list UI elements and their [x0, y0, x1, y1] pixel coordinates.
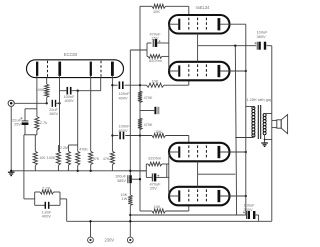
wire V4 anode out [220, 195, 246, 197]
ground rail [11, 170, 146, 172]
wire fb to bottom rail [66, 199, 68, 221]
ground symbol main [8, 171, 15, 173]
resistor 2.7k cathode U1a [36, 109, 38, 117]
wire anode to C1 [60, 90, 68, 92]
wire rail to lower box [130, 170, 146, 172]
svg-text:400V: 400V [119, 95, 128, 100]
wire V3 anode out [220, 151, 246, 153]
capacitor 100uF/385V [127, 175, 129, 183]
U1a grid (dashed) [47, 61, 49, 77]
wire U1b cathode down [90, 76, 92, 151]
node anode tee lower [111, 134, 113, 136]
resistor 82Ohm upper [148, 55, 162, 59]
capacitor 100nF/400V C2a [118, 81, 120, 89]
wire anode to C2a [112, 84, 117, 86]
wire speaker return [272, 127, 277, 129]
wire plate bus to primary [246, 106, 254, 108]
wire V4 cathode out [169, 195, 179, 197]
wire 47K to rail [90, 165, 92, 171]
capacitor 22uF/25V cathode [24, 109, 26, 121]
U1a anode bar [36, 62, 38, 76]
wire V3 cathode out [169, 151, 179, 153]
resistor 10K/1W dropper [128, 195, 132, 205]
svg-text:47K: 47K [103, 157, 110, 161]
wire cathode box bottom [24, 134, 37, 136]
U1a cathode bar [58, 62, 61, 76]
wire terminal L riser [90, 221, 92, 237]
wire cap to anode line [56, 102, 60, 104]
resistor 47K cathode U1b [89, 151, 93, 164]
svg-text:400V: 400V [42, 214, 51, 219]
wire secondary top to speaker [265, 113, 272, 115]
screen link lower [198, 173, 236, 175]
wire fb box left [24, 198, 35, 200]
wire U1b grid riser [100, 78, 102, 91]
screen bus upper [198, 45, 257, 47]
resistor 470K leak [77, 145, 79, 151]
wire U1a anode down [59, 76, 61, 151]
resistor 10K grid V3 [152, 133, 166, 137]
ground return vertical [271, 46, 273, 222]
U1b grid (dashed) [100, 61, 102, 77]
wire cap to bias line [132, 178, 140, 180]
resistor 100 tail [33, 151, 37, 165]
svg-text:380V: 380V [257, 34, 266, 39]
wire U1a cathode down [36, 76, 38, 109]
wire filter to dropper [129, 183, 131, 195]
wire 100k to input line [46, 97, 48, 103]
resistor 82Ohm lower [148, 162, 162, 166]
cathode link upper [168, 24, 170, 71]
terminal mains R [127, 237, 133, 243]
svg-text:25V: 25V [150, 186, 157, 191]
capacitor 22uF/160V input [51, 100, 53, 107]
svg-text:82Ohm: 82Ohm [149, 58, 162, 63]
resistor 100k grid (U1a) [45, 84, 49, 97]
resistor 10K grid V2 [147, 83, 165, 87]
pentode V4 (EL34) [169, 187, 230, 206]
capacitor 470uF/25V lower [151, 173, 153, 181]
resistor 10K grid V4 [140, 210, 152, 212]
wire V1 anode out [220, 23, 246, 25]
wire 10K to V2 grid [188, 80, 190, 85]
svg-text:10K: 10K [151, 79, 158, 84]
wire V4 g2 up [197, 174, 199, 187]
svg-text:25V: 25V [152, 36, 159, 41]
svg-text:400V: 400V [64, 98, 73, 103]
capacitor 470uF/25V upper [152, 39, 154, 47]
node rail terminal R [129, 220, 131, 222]
wire fb box right [59, 192, 61, 205]
node B+ rail [129, 214, 131, 216]
transformer core [257, 105, 259, 139]
wire input to grid resistor [14, 102, 46, 104]
pentode V2 (EL34) [169, 62, 230, 81]
wire grid lead U1a [46, 78, 48, 84]
wire jack ground down [10, 106, 12, 170]
svg-text:10K: 10K [153, 204, 160, 209]
svg-text:470K: 470K [79, 147, 88, 151]
wire box branch top [146, 43, 148, 56]
wire anode to C2b [112, 135, 118, 137]
resistor 470K bus lower [138, 118, 142, 130]
resistor 100K ladder [56, 151, 60, 165]
wire C1 to U1b grid [71, 90, 101, 92]
wire V1 cathode out [169, 23, 179, 25]
wire 47K anode to rail [111, 165, 113, 171]
wire 10K to V1 grid [188, 6, 190, 15]
U1b cathode bar [111, 62, 114, 76]
svg-text:470K: 470K [144, 96, 153, 100]
wire V3 g2 down [197, 161, 199, 174]
resistor 470K bus upper [138, 91, 142, 103]
bottom rail [67, 220, 272, 222]
wire cathode box top [25, 108, 37, 110]
node V2 anode [245, 70, 247, 72]
wire V2 anode out [220, 70, 246, 72]
wire box left to filter line [130, 49, 147, 51]
capacitor 100nF/400V C2b [119, 132, 121, 140]
node bias line lower [139, 134, 141, 136]
wire mid-bus cap stub [140, 110, 154, 112]
svg-text:380V: 380V [244, 207, 253, 212]
capacitor 1.8nF/400V feedback [35, 204, 46, 206]
svg-text:1W: 1W [122, 196, 128, 201]
svg-text:160V: 160V [49, 111, 58, 116]
node rail 47K [90, 170, 92, 172]
U1b anode bar [90, 62, 92, 76]
pentode V3 (EL34) [169, 143, 230, 162]
transformer T1 primary [252, 106, 255, 109]
transformer T1 secondary [263, 114, 266, 117]
svg-text:100K: 100K [47, 156, 56, 160]
wire secondary bottom down [264, 135, 266, 143]
node anode tee upper [111, 84, 113, 86]
svg-text:25V: 25V [14, 122, 21, 127]
node feedback takeoff [77, 90, 79, 92]
wire dropper to rails [129, 205, 131, 237]
input jack J1 [8, 100, 14, 106]
wire U1b anode down [111, 76, 113, 151]
node rail/filter [129, 170, 131, 172]
ground symbol secondary [261, 142, 268, 144]
wire box branch lower [145, 164, 147, 177]
wire 100 to ground rail [34, 165, 36, 171]
capacitor 100uF/380V lower [245, 214, 247, 216]
wire feedback left riser [23, 135, 25, 199]
wire 100K to rail [57, 165, 59, 171]
anode bus vertical [245, 24, 247, 215]
pentode V1 (EL34) [169, 15, 230, 34]
svg-text:2.7k: 2.7k [40, 121, 47, 125]
node ground rail [10, 170, 12, 172]
svg-text:82Ohm: 82Ohm [148, 156, 161, 161]
svg-text:2.2M: 2.2M [60, 146, 68, 150]
resistor 47K anode U1b [110, 151, 114, 164]
node input/grid-R junction [46, 102, 48, 104]
node cap/anode line [58, 102, 60, 104]
wire V2 cathode out [169, 70, 179, 72]
node secondary return [264, 139, 266, 141]
terminal mains L [88, 237, 94, 243]
resistor 2.2M [67, 145, 69, 151]
wire primary bottom to screen line [235, 137, 253, 139]
wire cathode node down [34, 135, 36, 151]
node V4 anode [245, 195, 247, 197]
svg-text:100: 100 [39, 156, 45, 160]
node V3 anode [245, 151, 247, 153]
wire C2a to bias line [125, 84, 147, 86]
node bias/cap [139, 178, 141, 180]
node rail 470K [77, 170, 79, 172]
svg-text:230V: 230V [105, 238, 115, 243]
node screen/B+ upper [234, 45, 236, 47]
svg-text:400V: 400V [119, 128, 128, 133]
node bias line upper [139, 84, 141, 86]
node rail terminal L [89, 220, 91, 222]
wire 10K to V3 grid [188, 136, 190, 143]
wire 2.2M/470K top link [68, 144, 77, 146]
capacitor 100nF/400V C1 [66, 87, 68, 95]
B+ rail horizontal [130, 214, 244, 216]
svg-text:ECC83: ECC83 [64, 52, 78, 57]
svg-text:10K: 10K [155, 129, 162, 134]
svg-text:4xEL34: 4xEL34 [196, 5, 211, 10]
wire takeoff down [77, 91, 79, 145]
wire 10K to V4 grid [188, 205, 190, 211]
resistor 10K grid V1 [140, 5, 152, 7]
wire C2b to bias line [125, 135, 152, 137]
svg-text:470K: 470K [144, 123, 153, 127]
svg-text:385V: 385V [117, 178, 126, 183]
wire V1 g2 down [197, 34, 199, 46]
svg-text:1.25K with gap: 1.25K with gap [247, 97, 273, 102]
cathode link lower [168, 152, 170, 196]
wire V2 g2 up [197, 46, 199, 62]
grid bus vertical [139, 6, 141, 211]
svg-text:2.2K: 2.2K [42, 185, 51, 190]
speaker LS1 [277, 120, 281, 128]
screen supply vertical [235, 46, 236, 215]
capacitor 100uF/380V upper [256, 42, 258, 50]
svg-text:10K: 10K [153, 9, 160, 14]
resistor 2.2K feedback [35, 191, 40, 193]
filter line vertical [129, 50, 131, 175]
capacitor stub [154, 107, 156, 114]
svg-text:47K: 47K [93, 157, 100, 161]
wire lower cap to rail [256, 214, 259, 216]
triode ECC83 U1 envelope [27, 60, 124, 78]
